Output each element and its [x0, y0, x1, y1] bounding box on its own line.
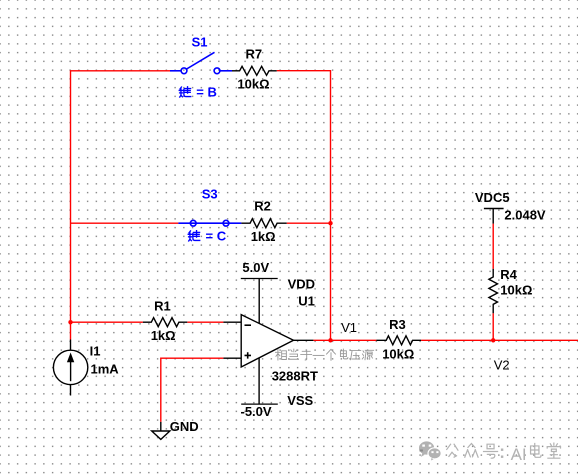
svg-text:R3: R3 — [389, 317, 406, 332]
resistor R1 — [143, 318, 187, 327]
svg-text:GND: GND — [170, 419, 199, 434]
op-amp U1 pins — [223, 279, 313, 405]
wire: R1 row from left vertical — [71, 321, 143, 323]
svg-text:3288RT: 3288RT — [272, 369, 318, 384]
svg-text:-5.0V: -5.0V — [241, 404, 272, 419]
node V2 junction — [491, 338, 495, 342]
wire: left vertical + top horizontal run — [71, 71, 171, 340]
switch S1 — [170, 52, 232, 73]
svg-text:VDC5: VDC5 — [475, 190, 510, 205]
svg-text:U1: U1 — [298, 294, 315, 309]
svg-text:1mA: 1mA — [91, 361, 120, 376]
svg-text:AI: AI — [511, 445, 527, 464]
current source I1 — [53, 340, 87, 396]
wire: R3 to right edge — [421, 339, 578, 341]
svg-text:1kΩ: 1kΩ — [151, 328, 176, 343]
ground symbol — [160, 422, 162, 431]
junction node at R1 row left — [68, 320, 72, 324]
annotation 相当于一个电压源 — [275, 349, 373, 360]
VDC5 power symbol — [484, 208, 504, 210]
resistor R4 (vertical) — [489, 269, 498, 313]
watermark wechat icon — [419, 441, 441, 460]
resistor R2 — [241, 219, 286, 228]
resistor R3 — [376, 336, 421, 345]
svg-text:R4: R4 — [500, 267, 517, 282]
wire: S3 row left segment — [71, 222, 179, 224]
switch S3 (closed) — [178, 220, 241, 226]
svg-text:R2: R2 — [254, 199, 271, 214]
svg-text:5.0V: 5.0V — [242, 260, 269, 275]
wire: VDC5 to R4 — [492, 224, 494, 269]
wire: R4 to output row — [492, 313, 494, 340]
wire: op-amp plus input to ground drop — [161, 358, 224, 422]
svg-text:V1: V1 — [341, 320, 357, 335]
op-amp U1 triangle — [241, 315, 293, 367]
wire: op-amp output to R3 — [313, 339, 376, 341]
svg-text:I1: I1 — [90, 344, 101, 359]
op-amp minus sign — [245, 324, 252, 326]
resistor R7 — [232, 66, 277, 75]
svg-text:VDD: VDD — [288, 277, 315, 292]
junction node at S3 row right — [328, 221, 332, 225]
wire: R2 to right vertical — [287, 222, 331, 224]
svg-text:S1: S1 — [192, 34, 208, 49]
node V1 junction — [328, 338, 332, 342]
svg-text:10kΩ: 10kΩ — [382, 347, 414, 362]
svg-text:R1: R1 — [154, 299, 171, 314]
svg-text:S3: S3 — [202, 187, 218, 202]
label 键 = B — [179, 87, 190, 97]
wire: top right corner down through S3 row to output row — [277, 71, 331, 341]
svg-text:10kΩ: 10kΩ — [500, 283, 532, 298]
VSS power bar -5.0V — [241, 403, 278, 405]
svg-text:1kΩ: 1kΩ — [251, 229, 276, 244]
svg-text:2.048V: 2.048V — [504, 207, 546, 222]
label 键 = C — [188, 231, 199, 241]
op-amp plus sign — [245, 352, 252, 358]
svg-text:10kΩ: 10kΩ — [237, 77, 269, 92]
VDD power bar 5.0V — [241, 278, 278, 280]
svg-text:V2: V2 — [494, 358, 510, 373]
svg-text:VSS: VSS — [287, 393, 313, 408]
wire: R1 to op-amp minus input — [187, 321, 223, 323]
watermark text 公众号：AI电堂 — [447, 444, 498, 459]
svg-text:= B: = B — [196, 85, 217, 100]
svg-text:R7: R7 — [246, 47, 263, 62]
svg-text:= C: = C — [206, 229, 227, 244]
